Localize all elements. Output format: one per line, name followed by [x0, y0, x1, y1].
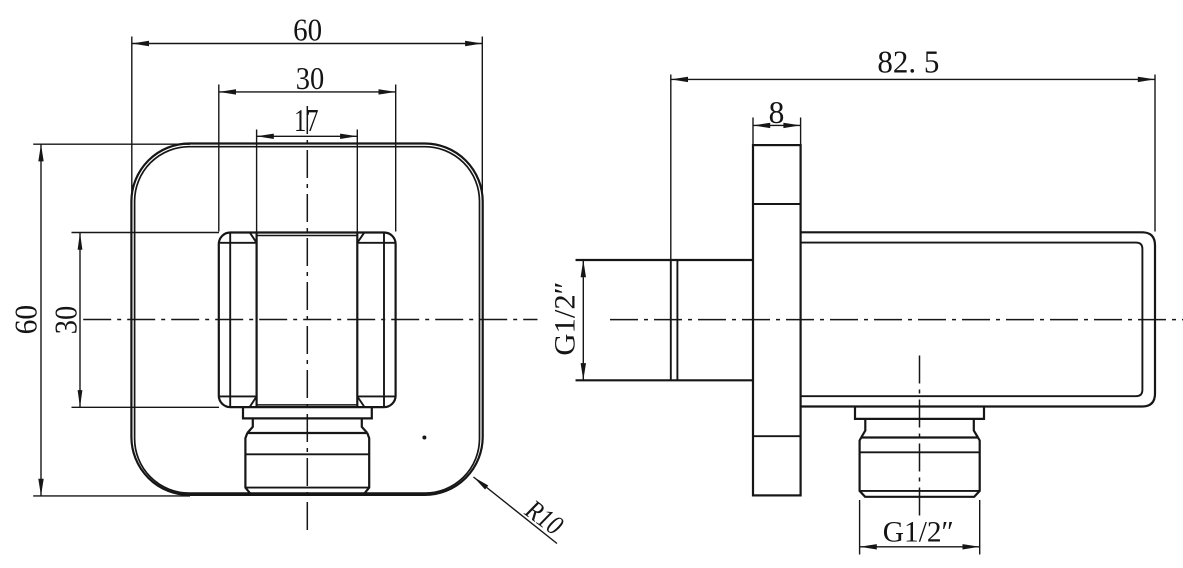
- right view outlet vertical centerline: [919, 356, 921, 519]
- dim G1/2 bottom: extension lines: [859, 500, 861, 555]
- right view horizontal centerline: [610, 319, 1183, 321]
- dimension texts: [9, 13, 954, 549]
- svg-text:60: 60: [293, 13, 322, 48]
- dim 82.5: extension lines: [670, 75, 672, 260]
- left view cylinder bottom reveal: [257, 404, 358, 406]
- right view flange corner reveal bottom: [753, 435, 801, 437]
- dim G1/2 bottom arrows: [860, 544, 877, 549]
- svg-text:8: 8: [769, 95, 785, 130]
- right view flange corner reveal top: [753, 203, 801, 205]
- left view inner edge reveal of wall plate: [135, 147, 480, 493]
- dim 8 arrows: [753, 123, 770, 128]
- svg-text:60: 60: [9, 305, 44, 335]
- left view outer wall-plate outline (rounded square 60x60): [131, 144, 482, 495]
- dim 30 top: extension lines: [218, 85, 220, 232]
- right view supply pipe bottom edge: [576, 379, 753, 381]
- left view plate chamfer band bottom-right: [357, 396, 394, 406]
- left view hose nut chamfer tangent line: [245, 487, 369, 489]
- left view cylinder silhouette right: [356, 233, 358, 407]
- right view hose nut chamfer tangent line: [860, 490, 980, 492]
- right view pipe step double line: [670, 260, 672, 380]
- left view horizontal centerline: [83, 319, 537, 321]
- dim 30 left arrows: [78, 233, 83, 250]
- dim 17 top: extension lines: [256, 130, 258, 232]
- left view plate side reveal line right: [383, 233, 385, 406]
- dim 82.5 arrows: [671, 77, 688, 82]
- dim 60 top: extension lines: [131, 37, 133, 201]
- svg-text:82. 5: 82. 5: [877, 44, 939, 79]
- left view plate chamfer band top-left: [220, 233, 257, 243]
- dim 82.5: dimension line: [671, 78, 1155, 80]
- small reference dot: [422, 436, 426, 440]
- R10 leader line: [474, 477, 558, 544]
- dim 60 top arrows: [132, 41, 149, 46]
- dim G1/2 left arrows: [581, 260, 586, 277]
- svg-text:G1/2″: G1/2″: [883, 516, 954, 549]
- R10 leader arrow: [474, 477, 489, 490]
- left view cylinder top reveal: [257, 235, 358, 237]
- right view flange plate: [753, 145, 801, 495]
- svg-text:17: 17: [294, 103, 319, 138]
- dim 30 left: dimension line: [79, 233, 81, 408]
- right view supply pipe top edge: [576, 259, 753, 261]
- left view vertical centerline: [306, 106, 308, 531]
- right view hose nut groove line: [860, 451, 980, 453]
- dim G1/2 left: dimension line: [582, 260, 584, 380]
- left view cylinder silhouette left: [256, 233, 258, 407]
- dim 8: extension lines: [752, 118, 754, 145]
- dim 30 left: extension lines: [72, 232, 220, 234]
- dim 17 top: dimension line: [257, 135, 358, 137]
- right view hose nut top edge: [861, 436, 978, 438]
- left view hose nut body: [245, 433, 369, 495]
- left view plate chamfer band top-right: [357, 233, 394, 243]
- left view plate side reveal line left: [229, 233, 231, 406]
- svg-text:G1/2″: G1/2″: [548, 282, 581, 356]
- dim G1/2 left: extension lines: [576, 259, 586, 261]
- dim G1/2 bottom: dimension line: [860, 546, 980, 548]
- right view outlet step 2 with flare: [861, 419, 978, 438]
- dim 60 left arrows: [38, 144, 43, 161]
- left view hose nut groove line: [245, 453, 369, 455]
- dim 8: dimension line: [753, 124, 801, 126]
- svg-text:30: 30: [296, 61, 325, 96]
- left view plate chamfer band bottom-left: [220, 396, 257, 406]
- right view elbow body outline: [801, 232, 1155, 406]
- dim 60 top: dimension line: [132, 43, 483, 45]
- dim 30 top arrows: [219, 89, 236, 94]
- dim 17 top arrows: [257, 134, 274, 139]
- right view elbow body edge reveal: [801, 243, 1143, 397]
- left view outlet step 2 with flare: [247, 418, 367, 433]
- left view outlet step plate: [243, 407, 372, 419]
- right view outlet step plate: [855, 407, 984, 419]
- svg-text:30: 30: [49, 306, 84, 335]
- right view hose nut body: [860, 438, 980, 497]
- dim 60 left: extension lines: [33, 143, 190, 145]
- centerlines: [83, 106, 1183, 531]
- svg-text:R10: R10: [519, 494, 569, 542]
- dim 60 left: dimension line: [40, 144, 42, 496]
- left view hose nut top edge: [247, 432, 367, 434]
- dim 30 top: dimension line: [219, 91, 396, 93]
- left view escutcheon square plate (30x30): [219, 233, 396, 408]
